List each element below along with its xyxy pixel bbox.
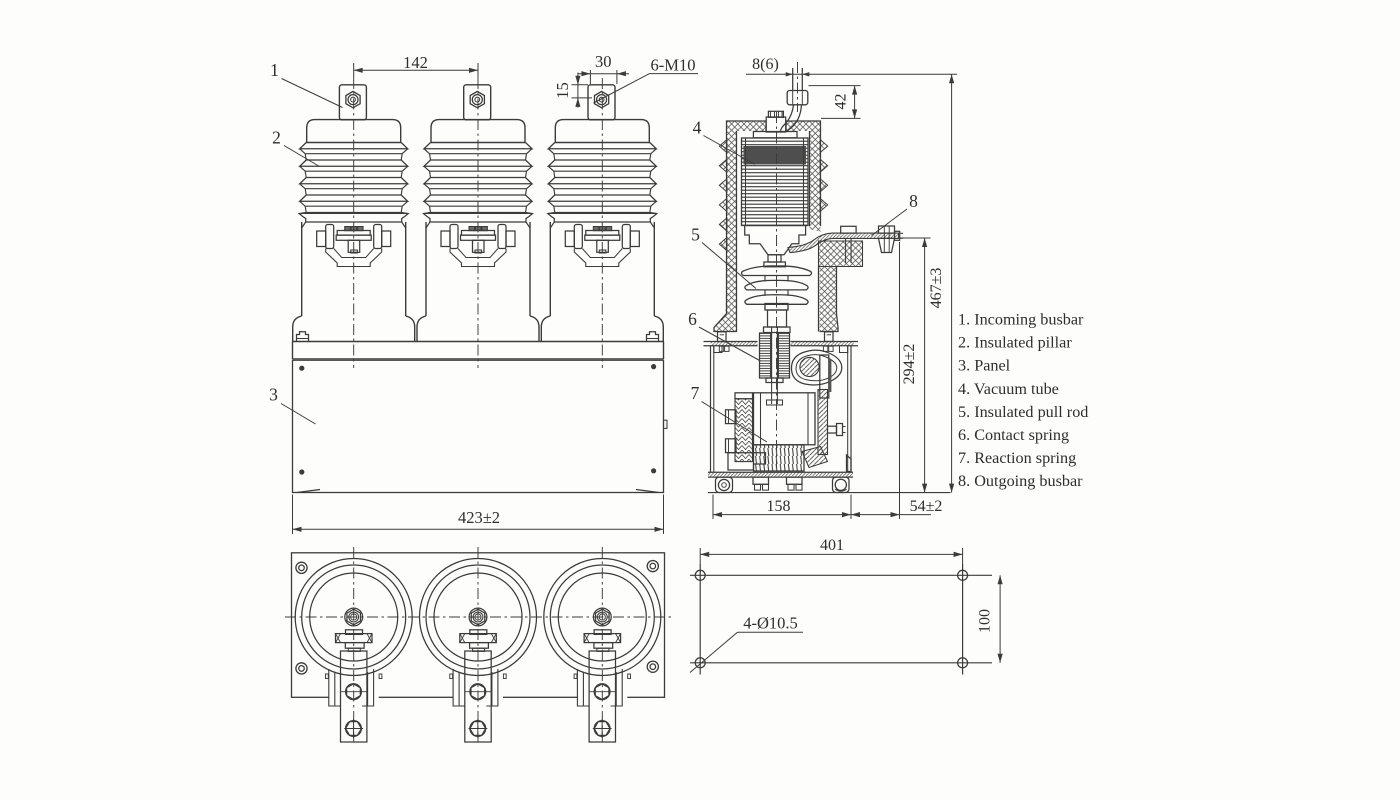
thread callout 6-M10 bbox=[594, 56, 699, 104]
svg-text:423±2: 423±2 bbox=[458, 508, 500, 527]
dimension 15 bbox=[553, 73, 592, 108]
svg-text:3. Panel: 3. Panel bbox=[958, 357, 1011, 375]
legend parts list bbox=[958, 311, 1088, 491]
vacuum tube bellows bbox=[742, 138, 809, 226]
spring end block bbox=[802, 447, 828, 468]
svg-text:8. Outgoing busbar: 8. Outgoing busbar bbox=[958, 472, 1083, 490]
mounting hole pattern view bbox=[690, 564, 992, 675]
busbar end clamp bbox=[879, 226, 904, 253]
svg-text:100: 100 bbox=[977, 609, 994, 633]
insulated pillar pole 1 bbox=[293, 85, 415, 342]
vacuum tube top cap bbox=[753, 111, 797, 138]
dimension 294±2 bbox=[900, 238, 931, 493]
box bottom plate bbox=[708, 472, 853, 477]
front view bbox=[293, 78, 668, 493]
mounting holes 4-Ø10.5 bbox=[695, 570, 967, 668]
svg-text:8(6): 8(6) bbox=[752, 56, 779, 73]
svg-text:15: 15 bbox=[553, 82, 572, 99]
centerline pole 3 top view bbox=[601, 547, 603, 745]
label 1 incoming busbar leader bbox=[270, 60, 342, 108]
housing left wall bbox=[714, 131, 737, 332]
side sectional view bbox=[704, 62, 951, 493]
label 8 outgoing busbar leader bbox=[872, 191, 919, 236]
horizontal centerline top view bbox=[285, 616, 671, 618]
svg-text:158: 158 bbox=[767, 498, 791, 515]
top view plate bbox=[292, 553, 665, 698]
svg-text:2. Insulated pillar: 2. Insulated pillar bbox=[958, 334, 1072, 352]
conductor curve to tube bbox=[781, 105, 802, 132]
actuator right column bbox=[818, 390, 828, 455]
svg-text:467±3: 467±3 bbox=[928, 268, 945, 309]
dimension 158 bbox=[713, 495, 851, 520]
extension busbar end bbox=[899, 242, 901, 519]
svg-text:4-Ø10.5: 4-Ø10.5 bbox=[743, 614, 798, 633]
svg-text:4: 4 bbox=[693, 118, 702, 138]
right wall bracket bbox=[847, 455, 852, 472]
dimension 8(6) bbox=[746, 56, 957, 77]
svg-text:5: 5 bbox=[691, 225, 700, 245]
label 6 contact spring leader bbox=[688, 309, 760, 361]
busbar support block bbox=[810, 226, 863, 267]
svg-text:1: 1 bbox=[270, 60, 279, 80]
plate corner holes bbox=[296, 561, 659, 675]
svg-text:2: 2 bbox=[272, 128, 281, 148]
svg-text:4. Vacuum tube: 4. Vacuum tube bbox=[958, 380, 1059, 398]
svg-text:3: 3 bbox=[269, 385, 278, 405]
dimension 423±2 bbox=[293, 495, 664, 535]
svg-text:7: 7 bbox=[691, 383, 700, 403]
box top plate bbox=[704, 342, 859, 346]
svg-text:42: 42 bbox=[833, 94, 850, 110]
mechanism box walls bbox=[711, 346, 852, 472]
bottom-left step block bbox=[728, 453, 766, 470]
right roller bbox=[833, 477, 850, 492]
svg-text:54±2: 54±2 bbox=[910, 498, 943, 515]
svg-text:294±2: 294±2 bbox=[901, 344, 918, 385]
svg-text:1. Incoming busbar: 1. Incoming busbar bbox=[958, 311, 1084, 329]
svg-text:8: 8 bbox=[909, 191, 918, 211]
actuator left column bbox=[735, 399, 753, 462]
hole callout 4-Ø10.5 bbox=[690, 614, 803, 673]
centerline pole 2 bbox=[477, 78, 479, 368]
insulated pillar pole 3 bbox=[541, 85, 663, 342]
dimension 42 bbox=[809, 86, 861, 119]
pole 2 top view bbox=[420, 559, 537, 743]
housing right wall lower bbox=[819, 267, 839, 332]
reaction spring bbox=[754, 445, 805, 471]
svg-text:142: 142 bbox=[403, 53, 428, 72]
centerline pole 1 bbox=[353, 78, 355, 368]
dimension 30 bbox=[578, 52, 629, 84]
vacuum tube bottom bbox=[745, 226, 806, 267]
left roller bbox=[716, 477, 733, 492]
svg-text:6-M10: 6-M10 bbox=[651, 56, 696, 75]
panel band left tab bbox=[297, 332, 309, 342]
panel top band bbox=[293, 342, 664, 360]
centerline pole 2 top view bbox=[477, 547, 479, 745]
svg-text:6. Contact spring: 6. Contact spring bbox=[958, 426, 1069, 444]
svg-text:401: 401 bbox=[820, 537, 844, 554]
label 7 reaction spring leader bbox=[691, 383, 767, 442]
insulated pull rod bbox=[742, 266, 812, 333]
panel face (item 3) bbox=[293, 360, 668, 492]
pole 1 top view bbox=[295, 559, 412, 743]
label 5 pull rod leader bbox=[691, 225, 756, 289]
housing right wall upper bbox=[810, 131, 828, 226]
feet blocks bbox=[753, 477, 802, 490]
svg-text:6: 6 bbox=[688, 309, 697, 329]
actuator body bbox=[735, 382, 815, 445]
dimension 467±3 bbox=[928, 74, 954, 492]
centerline pole 3 bbox=[601, 78, 603, 368]
centerline pole 1 top view bbox=[353, 547, 355, 745]
pole 3 top view bbox=[544, 559, 661, 743]
dimension 100 bbox=[977, 575, 1003, 663]
svg-text:30: 30 bbox=[595, 52, 612, 71]
label 3 panel leader bbox=[269, 385, 315, 425]
label 4 vacuum tube leader bbox=[693, 118, 755, 165]
svg-text:7. Reaction spring: 7. Reaction spring bbox=[958, 449, 1076, 467]
dimension 142 bbox=[354, 53, 478, 78]
panel band right tab bbox=[647, 332, 659, 342]
contact spring bbox=[760, 327, 790, 383]
incoming terminal post bbox=[787, 68, 808, 105]
label 2 insulated pillar leader bbox=[272, 128, 319, 167]
insulated pillar pole 2 bbox=[417, 85, 539, 342]
busbar bolt to support bbox=[841, 226, 856, 263]
housing top band bbox=[727, 121, 821, 131]
left bolts bbox=[726, 410, 737, 453]
dimension 54±2 bbox=[851, 498, 942, 517]
mounting ears bbox=[718, 332, 834, 352]
dimension 401 bbox=[700, 537, 962, 564]
outgoing busbar bbox=[788, 233, 899, 253]
side bolt bbox=[828, 424, 846, 436]
baseline bbox=[708, 492, 951, 494]
svg-text:5. Insulated pull rod: 5. Insulated pull rod bbox=[958, 403, 1088, 421]
lever assembly bbox=[791, 350, 841, 398]
